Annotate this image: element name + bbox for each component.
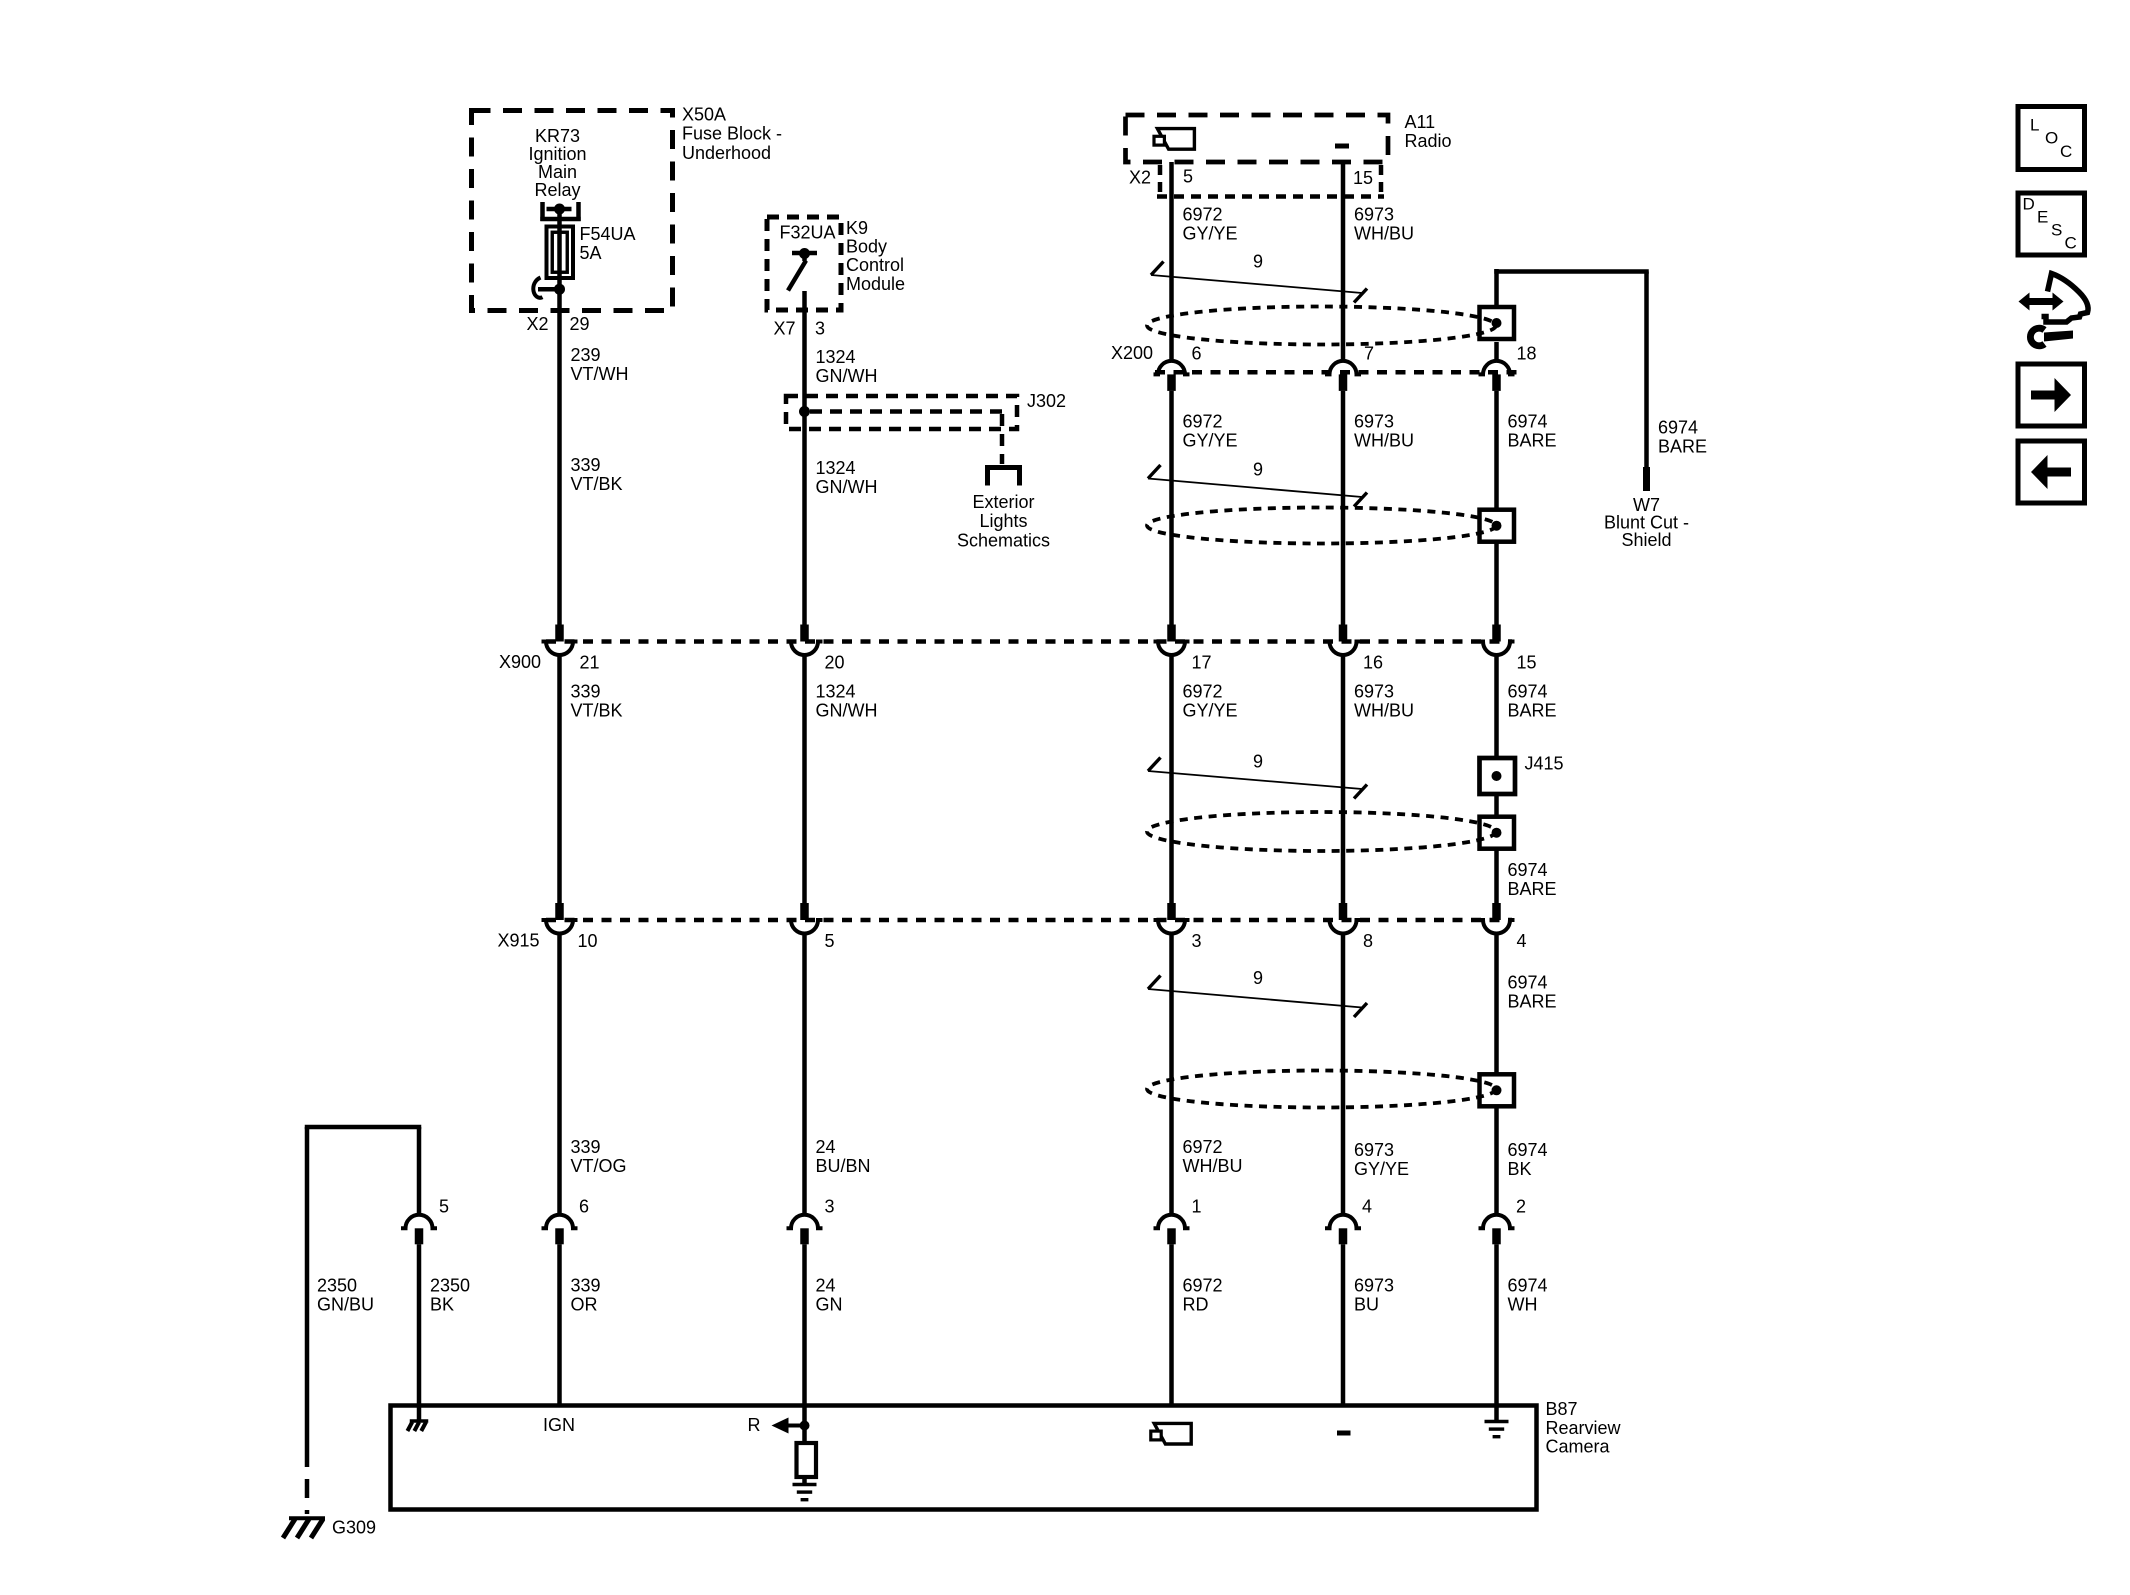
junction dot at fuse output xyxy=(554,284,565,295)
svg-text:1: 1 xyxy=(1192,1197,1202,1217)
svg-text:15: 15 xyxy=(1517,653,1537,673)
svg-text:339: 339 xyxy=(571,455,601,475)
svg-text:BARE: BARE xyxy=(1658,437,1707,457)
svg-text:339: 339 xyxy=(571,1137,601,1157)
wire E X200 to shield box2 xyxy=(1494,391,1499,510)
svg-text:15: 15 xyxy=(1353,168,1373,188)
svg-text:5: 5 xyxy=(1183,167,1193,187)
svg-text:8: 8 xyxy=(1363,931,1373,951)
svg-text:3: 3 xyxy=(825,1197,835,1217)
wire B X900 to X915 xyxy=(802,655,807,904)
svg-text:WH/BU: WH/BU xyxy=(1354,224,1414,244)
svg-text:3: 3 xyxy=(1192,931,1202,951)
ground G309 symbol xyxy=(289,1516,325,1520)
shield box 4 on wire E xyxy=(1480,1074,1515,1106)
svg-text:Fuse Block -: Fuse Block - xyxy=(682,124,782,144)
svg-text:BK: BK xyxy=(1508,1159,1532,1179)
svg-text:BARE: BARE xyxy=(1508,431,1557,451)
wire D pin4 to camera box xyxy=(1341,1244,1346,1405)
svg-text:Exterior: Exterior xyxy=(972,492,1034,512)
svg-text:18: 18 xyxy=(1517,343,1537,363)
svg-text:20: 20 xyxy=(825,653,845,673)
inline connector pin 5 at camera xyxy=(401,1215,437,1229)
svg-text:Main: Main xyxy=(538,162,577,182)
svg-text:F54UA: F54UA xyxy=(580,224,636,244)
wire D X200 to X900 xyxy=(1341,391,1346,625)
inline connector pin 3 at camera xyxy=(787,1215,823,1229)
wire resistor to ground xyxy=(802,1477,807,1484)
svg-text:339: 339 xyxy=(571,682,601,702)
wire 2350 GN/BU top horizontal xyxy=(305,1125,422,1130)
svg-text:E: E xyxy=(2037,208,2048,227)
twisted pair symbol 9 (X200-X900 segment) xyxy=(1148,479,1362,498)
legend icon next-page arrow box xyxy=(2018,364,2085,426)
twisted pair symbol 9 (X915-camera segment) xyxy=(1148,989,1362,1008)
wire 2350 BK vertical xyxy=(417,1127,422,1215)
svg-text:6973: 6973 xyxy=(1354,205,1394,225)
svg-text:KR73: KR73 xyxy=(535,126,580,146)
svg-text:6972: 6972 xyxy=(1183,412,1223,432)
earth ground inside camera (pin 2) xyxy=(1485,1420,1509,1423)
svg-text:6973: 6973 xyxy=(1354,1140,1394,1160)
wire E J415 to shield box3 xyxy=(1494,794,1499,817)
wire 2350 GN/BU dashed to ground xyxy=(305,1448,310,1514)
svg-text:L: L xyxy=(2030,116,2039,135)
svg-text:17: 17 xyxy=(1192,653,1212,673)
svg-text:6972: 6972 xyxy=(1183,205,1223,225)
splice J302 inner dashed line xyxy=(810,409,1002,414)
wire E inside camera box to ground xyxy=(1494,1406,1499,1423)
svg-text:5: 5 xyxy=(439,1197,449,1217)
svg-text:O: O xyxy=(2045,129,2058,148)
connector X900 pin 20 xyxy=(800,625,809,642)
wire B X915 to pin3 xyxy=(802,934,807,1216)
wire A pin6 to camera box xyxy=(557,1244,562,1405)
wire 1324 GN/WH BCM to X900 (wire B upper) xyxy=(802,291,807,625)
wire shield drain to blunt cut (wire F) xyxy=(1644,272,1649,469)
svg-text:5: 5 xyxy=(825,931,835,951)
svg-text:Relay: Relay xyxy=(534,180,580,200)
svg-text:BU: BU xyxy=(1354,1295,1379,1315)
svg-text:X7: X7 xyxy=(774,319,796,339)
svg-text:6974: 6974 xyxy=(1508,860,1548,880)
svg-text:4: 4 xyxy=(1517,931,1527,951)
connector line X200 xyxy=(1155,370,1519,375)
svg-text:WH/BU: WH/BU xyxy=(1183,1156,1243,1176)
svg-text:IGN: IGN xyxy=(543,1415,575,1435)
svg-text:BU/BN: BU/BN xyxy=(816,1156,871,1176)
wire E shield box1 to X200 xyxy=(1494,342,1499,361)
connector X200 pin 6 xyxy=(1154,361,1190,375)
twisted pair symbol 9 (X900-X915 segment) xyxy=(1148,771,1362,789)
radio A11 dashed box xyxy=(1126,115,1389,162)
wire A X915 to pin6 xyxy=(557,934,562,1216)
svg-text:6974: 6974 xyxy=(1508,682,1548,702)
wire E X900 to J415 xyxy=(1494,655,1499,758)
svg-text:WH/BU: WH/BU xyxy=(1354,431,1414,451)
relay KR73 junction dot xyxy=(554,204,565,215)
svg-text:6974: 6974 xyxy=(1508,1276,1548,1296)
wire C pin1 to camera box xyxy=(1169,1244,1174,1405)
svg-text:C: C xyxy=(2060,142,2072,161)
wire 239 VT/WH fuse to X900 (wire A upper) xyxy=(557,289,562,625)
svg-text:VT/OG: VT/OG xyxy=(571,1156,627,1176)
svg-text:Radio: Radio xyxy=(1405,131,1452,151)
relay KR73 contact bracket xyxy=(540,202,545,221)
svg-text:VT/WH: VT/WH xyxy=(571,364,629,384)
svg-text:5A: 5A xyxy=(580,243,602,263)
relay terminal hook xyxy=(533,278,542,298)
svg-text:Control: Control xyxy=(846,255,904,275)
svg-text:21: 21 xyxy=(580,653,600,673)
connector X915 pin 10 xyxy=(555,903,564,920)
minus sign in camera box xyxy=(1337,1431,1351,1436)
svg-text:6973: 6973 xyxy=(1354,1276,1394,1296)
svg-text:X2: X2 xyxy=(1129,168,1151,188)
svg-text:Body: Body xyxy=(846,237,887,257)
svg-text:Shield: Shield xyxy=(1621,530,1671,550)
svg-text:F32UA: F32UA xyxy=(780,223,836,243)
svg-text:24: 24 xyxy=(816,1137,836,1157)
svg-text:GY/YE: GY/YE xyxy=(1183,431,1238,451)
svg-text:24: 24 xyxy=(816,1276,836,1296)
svg-text:X200: X200 xyxy=(1111,343,1153,363)
connector X915 pin 4 xyxy=(1492,903,1501,920)
fuse F54UA symbol xyxy=(547,227,574,279)
svg-text:J415: J415 xyxy=(1525,754,1564,774)
legend icon previous-page arrow box xyxy=(2018,441,2085,503)
connector X900 pin 15 xyxy=(1492,625,1501,642)
svg-text:X915: X915 xyxy=(498,931,540,951)
connector line X915 xyxy=(546,918,1512,923)
svg-text:Underhood: Underhood xyxy=(682,143,771,163)
svg-text:Rearview: Rearview xyxy=(1546,1418,1622,1438)
connector X915 pin 8 xyxy=(1339,903,1348,920)
svg-text:239: 239 xyxy=(571,345,601,365)
wire D X915 to pin4 xyxy=(1341,934,1346,1216)
svg-text:6973: 6973 xyxy=(1354,412,1394,432)
svg-text:X900: X900 xyxy=(499,652,541,672)
svg-text:6972: 6972 xyxy=(1183,1137,1223,1157)
wire E shield box4 to pin2 xyxy=(1494,1106,1499,1215)
svg-text:6972: 6972 xyxy=(1183,682,1223,702)
svg-text:GN: GN xyxy=(816,1295,843,1315)
body control module K9 dashed box xyxy=(767,217,841,310)
svg-text:D: D xyxy=(2023,195,2035,214)
inline connector pin 1 at camera xyxy=(1154,1215,1190,1229)
svg-text:2350: 2350 xyxy=(317,1276,357,1296)
svg-text:RD: RD xyxy=(1183,1295,1209,1315)
svg-text:7: 7 xyxy=(1364,343,1374,363)
wire E pin2 to camera box xyxy=(1494,1244,1499,1405)
legend icon DESC box xyxy=(2018,193,2085,255)
wire E shield box3 to X915 xyxy=(1494,849,1499,904)
earth ground inside camera (resistor) xyxy=(793,1483,817,1486)
svg-text:1324: 1324 xyxy=(816,347,856,367)
svg-text:K9: K9 xyxy=(846,218,868,238)
svg-text:OR: OR xyxy=(571,1295,598,1315)
shield box 2 on wire E xyxy=(1480,510,1515,542)
connector X915 pin 3 xyxy=(1167,903,1176,920)
svg-text:1324: 1324 xyxy=(816,682,856,702)
wire E X915 to shield box4 xyxy=(1494,934,1499,1075)
wire 6974 shield top segment (wire E) xyxy=(1494,269,1499,306)
off-page reference to Exterior Lights Schematics xyxy=(988,468,1020,486)
svg-text:Module: Module xyxy=(846,274,905,294)
svg-text:6: 6 xyxy=(579,1197,589,1217)
svg-text:339: 339 xyxy=(571,1276,601,1296)
svg-text:1324: 1324 xyxy=(816,458,856,478)
svg-text:R: R xyxy=(748,1415,761,1435)
wire shield jumper horizontal xyxy=(1494,269,1649,274)
blunt cut W7 terminal xyxy=(1643,467,1650,491)
junction block J415 box xyxy=(1480,758,1516,794)
connector X915 pin 5 xyxy=(800,903,809,920)
svg-text:WH: WH xyxy=(1508,1295,1538,1315)
connector X900 pin 17 xyxy=(1167,625,1176,642)
camera icon in radio xyxy=(1157,129,1194,150)
connector X200 pin 7 xyxy=(1325,361,1361,375)
svg-text:WH/BU: WH/BU xyxy=(1354,701,1414,721)
svg-text:GY/YE: GY/YE xyxy=(1183,224,1238,244)
svg-text:VT/BK: VT/BK xyxy=(571,701,623,721)
minus sign in radio xyxy=(1335,144,1349,149)
connector X900 pin 16 xyxy=(1339,625,1348,642)
chassis ground inside camera (pin 5) xyxy=(417,1406,422,1421)
rearview camera B87 box xyxy=(391,1406,1537,1510)
BCM switch dot xyxy=(799,248,810,259)
wire D X900 to X915 xyxy=(1341,655,1346,904)
svg-text:9: 9 xyxy=(1253,968,1263,988)
svg-text:6972: 6972 xyxy=(1183,1276,1223,1296)
camera icon in camera box xyxy=(1154,1423,1191,1444)
BCM switch blade xyxy=(802,253,807,261)
svg-text:BARE: BARE xyxy=(1508,879,1557,899)
wire C X200 to X900 xyxy=(1169,391,1174,625)
wire A X900 to X915 xyxy=(557,655,562,904)
svg-text:6974: 6974 xyxy=(1658,418,1698,438)
wire B pin3 to camera box xyxy=(802,1244,807,1405)
svg-text:6: 6 xyxy=(1192,343,1202,363)
svg-text:Camera: Camera xyxy=(1546,1437,1611,1457)
shield box 1 on wire E xyxy=(1480,307,1515,339)
svg-text:J302: J302 xyxy=(1027,391,1066,411)
twisted pair symbol 9 (radio segment) xyxy=(1151,275,1362,293)
svg-text:C: C xyxy=(2065,234,2077,253)
svg-text:3: 3 xyxy=(815,319,825,339)
wire C X915 to pin1 xyxy=(1169,934,1174,1216)
junction dot at R input xyxy=(800,1421,810,1431)
svg-text:GN/BU: GN/BU xyxy=(317,1295,374,1315)
shield ellipse 1 xyxy=(1147,307,1496,345)
shield ellipse 2 xyxy=(1147,508,1496,544)
splice J302 junction dot xyxy=(799,406,810,417)
svg-text:2350: 2350 xyxy=(430,1276,470,1296)
svg-text:2: 2 xyxy=(1516,1197,1526,1217)
svg-text:Schematics: Schematics xyxy=(957,530,1050,550)
shield ellipse 3 xyxy=(1147,812,1496,851)
wire 2350 BK pin5 to camera box xyxy=(417,1244,422,1405)
svg-text:BK: BK xyxy=(430,1295,454,1315)
wire through fuse xyxy=(557,228,562,287)
svg-text:X50A: X50A xyxy=(682,105,726,125)
svg-text:GN/WH: GN/WH xyxy=(816,701,878,721)
svg-text:16: 16 xyxy=(1363,653,1383,673)
reverse input arrow xyxy=(772,1418,789,1434)
svg-text:Lights: Lights xyxy=(979,511,1027,531)
radio connector X2 dotted box xyxy=(1158,165,1163,194)
svg-text:9: 9 xyxy=(1253,752,1263,772)
svg-text:VT/BK: VT/BK xyxy=(571,474,623,494)
wire C X900 to X915 xyxy=(1169,655,1174,904)
legend icon wiring route with wrench xyxy=(2027,298,2055,305)
svg-text:S: S xyxy=(2051,221,2062,240)
svg-text:9: 9 xyxy=(1253,459,1263,479)
wire 2350 GN/BU vertical solid xyxy=(305,1127,310,1448)
svg-text:G309: G309 xyxy=(332,1518,376,1538)
svg-text:4: 4 xyxy=(1362,1197,1372,1217)
wire R to resistor xyxy=(802,1406,807,1444)
splice J302 dashed box xyxy=(786,396,1017,429)
svg-text:10: 10 xyxy=(578,931,598,951)
connector line X900 xyxy=(546,639,1512,644)
svg-text:29: 29 xyxy=(570,314,590,334)
wire relay to fuse xyxy=(557,209,562,228)
inline connector pin 4 at camera xyxy=(1325,1215,1361,1229)
svg-text:GY/YE: GY/YE xyxy=(1183,701,1238,721)
inline connector pin 6 at camera xyxy=(542,1215,578,1229)
inline connector pin 2 at camera xyxy=(1479,1215,1515,1229)
wire E shield box2 to X900 xyxy=(1494,542,1499,626)
svg-text:X2: X2 xyxy=(527,314,549,334)
svg-text:6974: 6974 xyxy=(1508,412,1548,432)
wire 6972 radio to X200 (wire C upper) xyxy=(1169,162,1174,361)
svg-text:BARE: BARE xyxy=(1508,992,1557,1012)
connector X900 pin 21 xyxy=(555,625,564,642)
svg-text:GN/WH: GN/WH xyxy=(816,366,878,386)
wire 6973 radio to X200 (wire D upper) xyxy=(1341,162,1346,361)
svg-text:6974: 6974 xyxy=(1508,1140,1548,1160)
svg-text:GN/WH: GN/WH xyxy=(816,477,878,497)
svg-text:6974: 6974 xyxy=(1508,973,1548,993)
svg-text:6973: 6973 xyxy=(1354,682,1394,702)
svg-text:B87: B87 xyxy=(1546,1399,1578,1419)
svg-text:BARE: BARE xyxy=(1508,701,1557,721)
svg-text:A11: A11 xyxy=(1405,112,1436,132)
shield ellipse 4 xyxy=(1147,1071,1496,1108)
shield box 3 on wire E xyxy=(1480,817,1515,849)
svg-text:9: 9 xyxy=(1253,252,1263,272)
fuse block X50A dashed box xyxy=(472,111,673,311)
svg-text:Ignition: Ignition xyxy=(528,144,586,164)
resistor inside camera xyxy=(797,1443,817,1477)
connector X200 pin 18 xyxy=(1479,361,1515,375)
BCM switch bar xyxy=(792,251,817,256)
legend icon LOC box xyxy=(2018,107,2085,170)
svg-text:GY/YE: GY/YE xyxy=(1354,1159,1409,1179)
